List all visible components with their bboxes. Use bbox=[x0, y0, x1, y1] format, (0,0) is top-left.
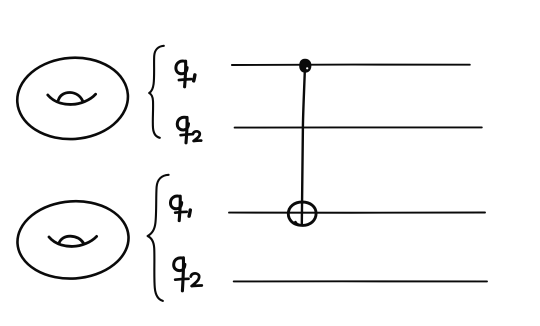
brace B2 (bottom system) bbox=[148, 175, 169, 301]
control dot inner notch bbox=[306, 67, 308, 69]
wire 3 (bottom q1 line) bbox=[229, 212, 485, 214]
label q2 bottom: q crossbar bbox=[175, 277, 188, 281]
label q2 top: q loop bbox=[177, 117, 188, 130]
torus T1 outer ellipse bbox=[15, 54, 131, 143]
label q2 bottom: q stem bbox=[182, 258, 183, 291]
control dot (filled) bbox=[300, 60, 311, 72]
torus T2 inner bump arc bbox=[59, 236, 84, 244]
wire 1 (top q1 line) bbox=[232, 64, 470, 66]
label q2 bottom: subscript 2 bbox=[191, 273, 202, 286]
wire 4 (bottom q2 line) bbox=[234, 280, 487, 282]
label q2 top: subscript 2 bbox=[193, 131, 201, 141]
label q1 top: q crossbar bbox=[179, 79, 191, 80]
torus T1 inner smile arc bbox=[48, 94, 96, 104]
brace B1 (top system) bbox=[149, 46, 164, 138]
wire 2 (top q2 line) bbox=[235, 126, 482, 128]
torus T2 inner smile arc bbox=[49, 236, 97, 246]
label q1 bottom: q stem bbox=[179, 196, 180, 220]
torus T1 inner bump arc bbox=[58, 92, 82, 101]
label q1 bottom: subscript 1 tick bbox=[189, 210, 190, 216]
label q1 bottom: q loop bbox=[170, 196, 181, 209]
label q2 top: q stem bbox=[186, 117, 187, 142]
label q1 top: q loop bbox=[176, 61, 187, 74]
label q1 bottom: q crossbar bbox=[175, 210, 187, 214]
label q1 top: subscript 1 tick bbox=[194, 75, 195, 81]
label q1 top: q stem bbox=[185, 61, 186, 87]
vertical connector wire (control to target) bbox=[302, 66, 305, 225]
label q2 top: q crossbar bbox=[181, 134, 193, 135]
label q2 bottom: q loop bbox=[174, 258, 185, 271]
torus T2 outer ellipse bbox=[15, 198, 131, 283]
CNOT target circle bbox=[288, 202, 316, 225]
